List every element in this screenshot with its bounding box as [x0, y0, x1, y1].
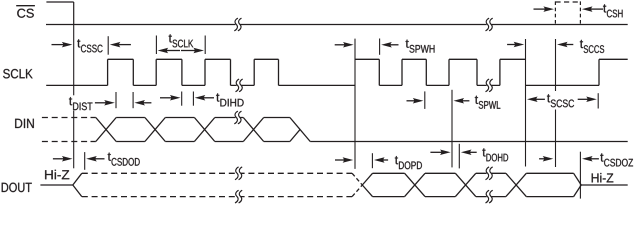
- reference line SCLK rise x452: [451, 90, 453, 168]
- tCSDOZ label: [600, 153, 633, 166]
- tCSSC left arrow: [52, 42, 73, 48]
- tSCSC right tick: [597, 93, 599, 108]
- tSPWH label: [406, 40, 435, 53]
- SCLK low line break 2: [486, 79, 493, 92]
- tSCLK span arrows: [158, 48, 204, 54]
- signal label DIN: [15, 119, 34, 128]
- reference line SCLK fall x525: [525, 39, 527, 167]
- DIN last-bit half diagonal: [290, 129, 300, 141]
- tSPWH right tick: [379, 39, 381, 55]
- signal label SCLK: [3, 69, 33, 78]
- CS low line: [46, 24, 628, 26]
- tSPWL right arrow: [454, 98, 470, 104]
- DIN last-bit converge diagonal: [290, 118, 310, 142]
- tSCCS left arrow: [507, 42, 524, 48]
- CS falling edge at t0: [73, 2, 75, 25]
- label Hi-Z right: [592, 173, 614, 182]
- tSPWL label: [475, 96, 500, 109]
- tSPWH right arrow: [381, 42, 398, 48]
- DOUT fork to top: [73, 173, 82, 185]
- tDIHD right arrow: [195, 95, 214, 101]
- tDOHD right arrow: [461, 150, 477, 156]
- DOUT fork to bottom: [73, 185, 82, 197]
- CS dashed pulse top: [555, 1, 580, 3]
- tDIHD left arrow: [160, 95, 181, 101]
- DOUT crossing A dashed halves: [352, 173, 362, 196]
- SCLK waveform right section: [355, 59, 628, 85]
- reference line at CS fall t0: [73, 25, 75, 169]
- tDIST right tick: [132, 92, 134, 108]
- tCSDOZ left arrow: [539, 156, 553, 162]
- DOUT converge bottom: [574, 185, 582, 197]
- DIN dashed idle top: [42, 117, 91, 119]
- tCSH left arrow: [534, 6, 555, 12]
- tSCCS right arrow: [557, 42, 573, 48]
- CS low line break 2: [486, 18, 493, 31]
- tDIHD right tick: [192, 92, 194, 106]
- DOUT top line break: [486, 167, 493, 180]
- DOUT dashed bottom break: [235, 190, 242, 203]
- tCSSC right arrow: [110, 42, 131, 48]
- tDOPD label: [395, 156, 422, 169]
- tSCLK right tick: [204, 36, 206, 55]
- tDIST right arrow: [134, 100, 151, 106]
- SCLK waveform left section: [46, 59, 355, 85]
- DOUT converge top: [574, 173, 582, 185]
- tDOHD tick: [458, 144, 460, 169]
- DOUT dashed tri-state top: [82, 172, 352, 174]
- DOUT dashed tri-state bottom: [82, 196, 352, 198]
- tDOHD left arrow: [430, 150, 450, 156]
- tSCLK label: [169, 34, 194, 47]
- tSCCS label: [580, 40, 604, 53]
- tCSSC right tick: [107, 36, 109, 55]
- CS high segment: [46, 1, 73, 3]
- signal label DOUT: [2, 183, 32, 192]
- tSPWL left tick: [424, 91, 426, 109]
- tCSDOD right arrow: [86, 156, 104, 162]
- reference line CS rise x555: [555, 39, 557, 167]
- signal label CS with overline: [16, 6, 35, 18]
- CS low line break 1: [234, 18, 241, 31]
- reference line SCLK rise x355: [354, 39, 356, 169]
- DIN idle low line right: [310, 141, 628, 143]
- tSCSC label: [547, 94, 574, 107]
- tDIHD left tick: [181, 92, 183, 106]
- reference line DOUT hiZ x580: [579, 152, 581, 199]
- CS dashed pulse right edge: [579, 1, 581, 24]
- tDIST label: [69, 97, 93, 110]
- DOUT data bus with crossings: [373, 173, 574, 196]
- tCSDOZ right arrow: [582, 156, 599, 162]
- tSCSC right arrow: [578, 97, 597, 103]
- tSPWH left arrow: [335, 42, 354, 48]
- DOUT Hi-Z mid line right: [581, 184, 628, 186]
- tDOPD right arrow: [374, 157, 388, 163]
- tCSDOD left arrow: [53, 156, 73, 162]
- DIN dashed idle bottom: [42, 141, 91, 143]
- DOUT Hi-Z mid line left: [40, 184, 72, 186]
- tCSDOD tick: [84, 152, 86, 170]
- SCLK low line break 1: [236, 79, 243, 92]
- tDOPD left arrow: [335, 157, 353, 163]
- tSPWL left arrow: [407, 98, 424, 104]
- tCSH label: [603, 4, 622, 17]
- tDIHD label: [216, 93, 243, 106]
- tSCLK left tick: [155, 36, 157, 55]
- tDIST left tick: [115, 92, 117, 108]
- tDIST left arrow: [95, 100, 115, 106]
- DIN top line break: [234, 111, 241, 124]
- DOUT crossing A solid halves: [362, 173, 372, 196]
- tCSDOD label: [108, 153, 140, 166]
- tDOHD label: [482, 148, 508, 161]
- tCSSC label: [77, 39, 102, 52]
- DIN data bus with crossings: [91, 118, 290, 142]
- tSCSC left arrow: [527, 97, 545, 103]
- label Hi-Z left: [45, 170, 69, 179]
- DOUT dashed top break: [235, 167, 242, 180]
- DOUT bottom line break: [486, 190, 493, 203]
- tCSH right arrow: [582, 6, 603, 12]
- tDOPD tick: [371, 153, 373, 168]
- CS dashed pulse left edge: [554, 1, 556, 24]
